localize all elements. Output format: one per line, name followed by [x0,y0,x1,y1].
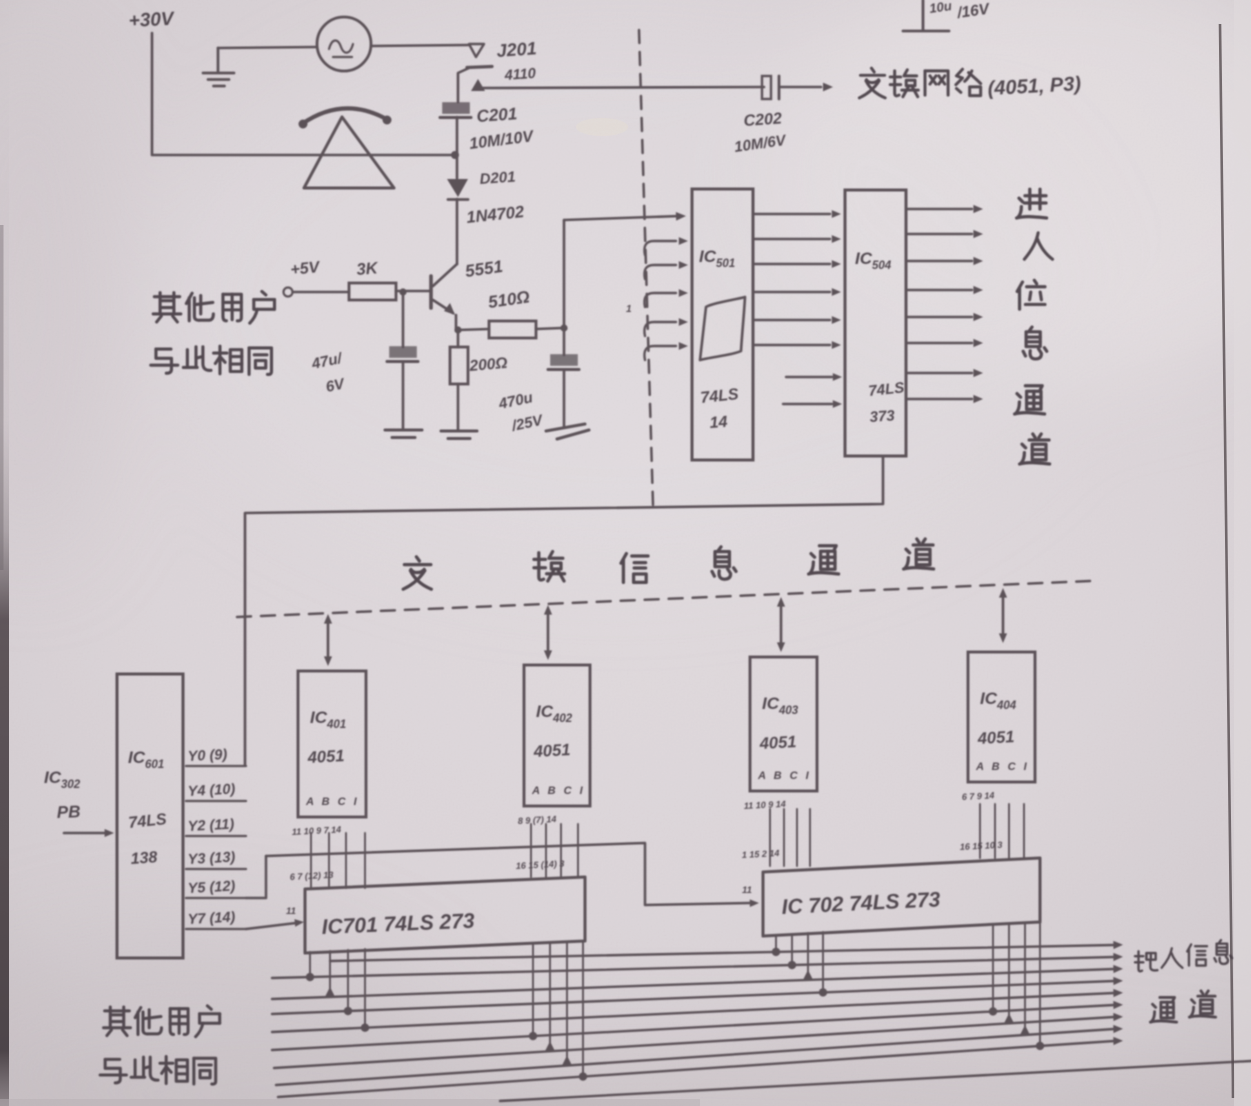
dark left paper edge [0,0,9,1106]
resistor R3 200 ohm vertical [457,330,460,347]
tap U702 out R x=993 to bus 6 [992,925,994,1011]
arrowhead on output line [471,79,485,91]
tap U701 out L x=365 to bus 5 [364,949,366,1028]
bus line 4 [272,981,1114,1014]
node base/C2 [399,288,406,295]
title: switching info channel [403,557,431,589]
wire D201 to Q1 collector [456,199,459,264]
IC U501 74LS14 box [692,189,753,460]
ground under C3 (tilted) [546,424,589,439]
tap U701 out L x=310 to bus 2 [309,952,311,977]
stub Y3 (13) [186,868,246,870]
capacitor C3 470u electrolytic [551,355,577,365]
schmitt symbol inside IC501 [700,297,745,360]
wire output to C202 [479,87,764,88]
svg-text:6 7 9 14: 6 7 9 14 [962,790,995,802]
tap U701 out R x=533 to bus 6 [532,944,534,1036]
wire AC source to switch J201 [371,45,468,46]
resistor R1 3K [349,283,396,300]
svg-text:A B C I: A B C I [531,785,585,797]
svg-text:D201: D201 [479,169,516,188]
partial cap to +16V at top [903,0,949,31]
node output [560,324,567,331]
svg-text:8 9 (7) 14: 8 9 (7) 14 [518,814,557,826]
tap U702 out L x=823 to bus 4 [822,932,824,992]
svg-text:+5V: +5V [290,259,322,279]
svg-text:+30V: +30V [128,9,175,32]
svg-text:PB: PB [56,802,80,822]
svg-text:14: 14 [709,414,728,432]
tap U701 out L x=330 to bus 3 [329,951,331,997]
wire Y7 to IC701 clock [246,923,296,929]
capacitor C202 [762,76,771,99]
capacitor C2 47u electrolytic [390,347,416,357]
ground G1 [203,48,234,86]
bottom paper edge shading [0,1099,700,1106]
dashed separator horizontal [237,581,1090,617]
svg-text:11: 11 [742,885,752,896]
IC U504 74LS373 box [845,190,906,456]
svg-text:Y7 (14): Y7 (14) [187,910,235,928]
input hooks into IC501 [644,241,676,255]
text write-in info channel [1135,951,1157,971]
IC U403 4051 box [750,657,817,791]
svg-text:A B C I: A B C I [305,796,359,808]
text yucixiangtong bottom [100,1059,126,1083]
bus line 1 [330,945,1114,961]
svg-text:Y5 (12): Y5 (12) [187,879,235,897]
meter/armature symbol (triangle) [304,117,394,188]
step wire Y5 to long line [246,856,266,898]
stub Y0 (9) [186,765,246,767]
svg-text:138: 138 [130,849,158,868]
bus line 10 (to edge) [500,1061,1251,1101]
tap U701 out R x=567 to bus 8 [566,942,568,1066]
IC U402 4051 box [524,665,590,806]
lines IC501 to IC504 [753,213,830,215]
text qitayonghu top [153,293,181,322]
tap U702 out L x=792 to bus 2 [791,934,793,965]
svg-text:4051: 4051 [306,747,345,767]
bus line 9 [278,1041,1114,1097]
bus line 6 [272,1005,1114,1050]
ground under C2 [385,430,422,438]
node emitter [454,326,461,333]
svg-text:4110: 4110 [503,66,536,84]
tap U701 out L x=348 to bus 4 [347,950,349,1011]
svg-text:A B C I: A B C I [757,770,811,782]
text yucixiangtong top [151,349,178,373]
svg-text:C202: C202 [743,110,782,130]
svg-text:4051: 4051 [758,733,797,753]
stub Y7 (14) [186,928,246,930]
svg-text:Y4 (10): Y4 (10) [187,782,235,800]
bus line 2 [272,957,1114,978]
svg-text:Y0 (9): Y0 (9) [187,747,227,765]
right paper border line [1220,24,1233,1098]
bus line 7 [274,1017,1114,1068]
resistor R2 510 ohm [458,329,489,330]
text jiaohuanwangluo [859,68,885,98]
IC U701 74LS273 box [305,877,585,953]
stub Y2 (11) [186,835,246,837]
channel arrow x=781 [780,601,783,648]
tap U702 out R x=1040 to bus 9 [1039,922,1041,1046]
wire +5V to R1 [293,291,349,294]
svg-text:Y3 (13): Y3 (13) [187,850,235,868]
svg-text:4051: 4051 [976,728,1015,748]
svg-text:11: 11 [286,906,296,917]
stub Y5 (12) [186,897,246,899]
svg-text:Y2 (11): Y2 (11) [187,817,234,835]
arrow IC302 PB into 138 [64,832,105,835]
channel arrow x=548 [547,609,550,656]
IC U702 74LS273 box [763,858,1040,936]
channel arrow x=328 [327,618,330,662]
IC U404 4051 box [968,652,1035,782]
AC ring source B1 [317,17,371,71]
extra inputs to IC504 [786,376,832,378]
svg-text:C201: C201 [476,104,518,126]
tap U702 out R x=1025 to bus 8 [1024,923,1026,1035]
wire IC504 bottom to 138 stub [245,456,883,765]
dashed separator vertical [639,30,653,505]
svg-text:A B C I: A B C I [975,761,1029,773]
svg-text:1 15 2 14: 1 15 2 14 [742,848,780,860]
arc over triangle [302,108,388,124]
svg-text:1: 1 [626,304,632,315]
long wire to IC702 clock [266,843,750,905]
diode D201 [447,179,468,197]
stub Y4 (10) [186,800,246,802]
svg-text:373: 373 [869,407,896,426]
wire ground to AC source [218,47,317,48]
svg-text:4051: 4051 [532,741,571,761]
switch J201 contact [469,44,484,57]
node junction +30V/C201 [451,151,459,159]
svg-text:3K: 3K [356,259,380,279]
tap U701 out R x=550 to bus 7 [549,943,551,1051]
text qitayonghu bottom [104,1007,131,1036]
wire +30V down-left side [152,33,455,155]
svg-text:200Ω: 200Ω [468,355,508,375]
IC U601 74LS138 box [117,674,183,958]
tap U702 out L x=776 to bus 1 [775,935,777,952]
bus line 5 [272,993,1114,1032]
tap U702 out L x=808 to bus 3 [807,933,809,980]
wire output to IC501 input [564,216,680,220]
svg-text:J201: J201 [496,38,537,61]
wire R1 to Q1 base [396,290,431,293]
channel arrow x=1003 [1002,592,1005,639]
IC U401 4051 box [298,671,366,817]
bus line 3 [272,969,1114,999]
wire output node up and right cap [563,220,566,355]
bus line 8 [276,1029,1114,1085]
wire node to C2 [402,292,405,347]
ground under R3 [441,431,477,439]
vertical text: enter info channel [1017,189,1047,218]
tap U701 out R x=583 to bus 9 [582,941,584,1077]
capacitor C201 (electrolytic) [443,103,469,113]
tap U702 out R x=1009 to bus 7 [1008,924,1010,1023]
output arrows from IC504 [906,208,972,210]
transistor Q1 5551 [433,264,457,286]
